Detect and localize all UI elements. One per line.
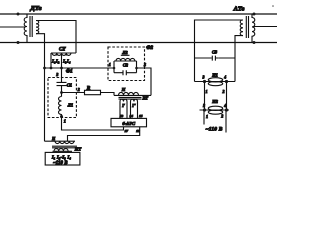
svg-text:С1: С1 bbox=[67, 82, 72, 87]
transformer ATv core bbox=[246, 16, 248, 38]
wire: ATv secondary bottom to right vertical bbox=[235, 36, 243, 58]
inductor L2 bumps bbox=[116, 58, 135, 61]
wire: bus to F2 bbox=[45, 67, 115, 69]
junction dot rail2 left bbox=[17, 41, 20, 44]
svg-text:Ф2: Ф2 bbox=[146, 46, 153, 51]
wire: terminal 18 to PT bbox=[68, 127, 140, 141]
wire: PT secondary to terminal box bbox=[56, 151, 68, 152]
wire: DTv secondary bottom going down long vertical bbox=[36, 34, 45, 142]
svg-text:П1: П1 bbox=[211, 72, 218, 77]
transformer VT core bbox=[119, 97, 142, 99]
wire: supply right bbox=[225, 110, 227, 133]
wire: ATv center tap stub bbox=[254, 26, 277, 28]
svg-text:I₁ I₂-I₃ I₄: I₁ I₂-I₃ I₄ bbox=[51, 154, 72, 159]
svg-text:17: 17 bbox=[125, 129, 129, 133]
speck top right bbox=[272, 5, 274, 7]
svg-text:1: 1 bbox=[109, 63, 111, 67]
node dot ST left on bus bbox=[50, 67, 53, 70]
filter box F2 (dashed) bbox=[108, 47, 145, 81]
svg-text:ПТ: ПТ bbox=[74, 146, 82, 151]
node dot center tap on bus bbox=[60, 67, 63, 70]
resistor R bbox=[85, 90, 101, 94]
wire: terminal 17 to node 1 bbox=[62, 117, 124, 131]
node dot 1 bbox=[60, 115, 63, 118]
transformer ST winding bumps with taps bbox=[52, 53, 71, 55]
svg-text:II: II bbox=[51, 137, 55, 141]
svg-text:С2: С2 bbox=[123, 63, 129, 68]
transformer PT primary line bbox=[45, 140, 76, 142]
filter box F1 (dashed) bbox=[48, 78, 76, 118]
svg-text:13: 13 bbox=[120, 114, 124, 118]
wire: P2 horizontal bbox=[200, 109, 230, 111]
capacitor C2 bbox=[114, 70, 137, 75]
tap ticks ST bbox=[57, 53, 67, 56]
svg-text:АТв: АТв bbox=[233, 5, 245, 12]
transformer DTv core bbox=[30, 16, 32, 37]
fuse P1 bbox=[208, 78, 222, 82]
fuse P2 bbox=[208, 106, 222, 110]
wire: C3 line bbox=[195, 57, 236, 59]
svg-text:2: 2 bbox=[222, 90, 225, 94]
transformer VT primary bumps bbox=[119, 92, 139, 95]
wire: ATv secondary top to left vertical bbox=[195, 20, 244, 58]
underline of L2 label bbox=[121, 54, 130, 56]
wire: left middle stub to DTv center tap bbox=[0, 26, 26, 28]
junction dot rail2 right bbox=[253, 41, 256, 44]
rail 2 (bottom track rail) bbox=[0, 42, 277, 44]
transformer ATv secondary winding bbox=[240, 20, 243, 36]
node dot P2 right bbox=[225, 108, 228, 111]
F2 parallel left vertical bbox=[113, 61, 115, 73]
svg-text:ВТ: ВТ bbox=[142, 95, 149, 100]
svg-text:Л1: Л1 bbox=[67, 103, 73, 108]
svg-text:3: 3 bbox=[55, 73, 58, 77]
svg-text:СТ: СТ bbox=[59, 46, 66, 52]
svg-text:2: 2 bbox=[220, 115, 223, 119]
wire: node2 to resistor R bbox=[62, 92, 85, 94]
wire: P1 horizontal bbox=[195, 81, 236, 83]
terminal box PT supply bbox=[45, 152, 80, 165]
svg-text:~110 В: ~110 В bbox=[53, 161, 68, 166]
svg-text:I₃I₄: I₃I₄ bbox=[62, 59, 71, 64]
F2 parallel right vertical bbox=[136, 61, 138, 73]
wire: F2 terminal 2 down to VT primary bbox=[137, 68, 152, 95]
svg-text:2: 2 bbox=[143, 63, 146, 67]
svg-text:3: 3 bbox=[202, 104, 205, 108]
transformer ST winding line bbox=[51, 52, 76, 54]
svg-text:Ф1: Ф1 bbox=[66, 70, 73, 75]
transformer VT primary line bbox=[114, 94, 151, 96]
node dot P2 left bbox=[203, 108, 206, 111]
svg-text:4: 4 bbox=[223, 75, 226, 79]
transformer VT secondary winding I' bbox=[120, 99, 127, 118]
terminal dot F2-2 bbox=[135, 67, 138, 70]
svg-text:15: 15 bbox=[139, 114, 143, 118]
svg-text:1: 1 bbox=[206, 115, 208, 119]
junction dot rail1 left bbox=[17, 13, 20, 16]
wire: R to VT primary bbox=[101, 93, 115, 96]
svg-text:I": I" bbox=[131, 104, 135, 108]
inductor L1 bbox=[59, 97, 62, 117]
svg-text:II: II bbox=[121, 87, 126, 92]
svg-text:~110 В: ~110 В bbox=[205, 127, 222, 133]
rail 1 (top track rail) bbox=[0, 13, 277, 15]
transformer PT secondary line bbox=[53, 150, 73, 152]
transformer DTv primary winding bbox=[24, 14, 27, 43]
inductor L2 line bbox=[114, 60, 137, 62]
junction dot rail1 right bbox=[253, 13, 256, 16]
wire: P-block outer right vertical bbox=[234, 58, 236, 82]
block 6-APC box bbox=[111, 118, 147, 126]
svg-text:С3: С3 bbox=[212, 49, 218, 54]
wire: supply left bbox=[203, 110, 205, 125]
svg-text:П2: П2 bbox=[211, 99, 218, 104]
svg-text:14: 14 bbox=[130, 114, 134, 118]
wire: ST center tap down bbox=[61, 53, 63, 82]
node dot P1 left bbox=[203, 80, 206, 83]
svg-text:2: 2 bbox=[77, 88, 80, 92]
svg-text:ДТв: ДТв bbox=[29, 5, 41, 12]
wire: ST left end down to bus bbox=[50, 53, 52, 68]
node dot 2 bbox=[60, 91, 63, 94]
svg-text:6-АРС: 6-АРС bbox=[122, 121, 136, 126]
transformer VT secondary winding I'' bbox=[131, 99, 138, 118]
svg-text:4: 4 bbox=[223, 104, 226, 108]
transformer DTv secondary winding bbox=[36, 21, 39, 34]
capacitor C1 bbox=[57, 82, 67, 85]
capacitor C3 bbox=[211, 56, 218, 61]
svg-text:I₁I₂: I₁I₂ bbox=[51, 59, 60, 64]
svg-text:I': I' bbox=[121, 104, 124, 108]
transformer PT secondary bumps bbox=[54, 149, 68, 152]
node dot at bus junction bbox=[43, 67, 46, 70]
transformer PT primary bumps bbox=[55, 141, 74, 143]
wire: DTv secondary top to ST right end bbox=[36, 21, 76, 54]
svg-text:Л2: Л2 bbox=[121, 50, 128, 55]
svg-text:3: 3 bbox=[202, 76, 205, 80]
transformer ATv track winding bbox=[252, 14, 255, 43]
node dot P1 right bbox=[225, 80, 228, 83]
transformer PT core bbox=[52, 146, 77, 148]
wire: C1 bottom to node 2 bbox=[61, 86, 63, 97]
wire: P-block outer left vertical bbox=[194, 58, 196, 82]
wire: inner right vertical bbox=[226, 82, 228, 111]
wire: inner left vertical bbox=[204, 82, 206, 111]
svg-text:1: 1 bbox=[206, 90, 208, 94]
terminal dot F2-1 bbox=[113, 67, 116, 70]
svg-text:1: 1 bbox=[64, 120, 66, 124]
